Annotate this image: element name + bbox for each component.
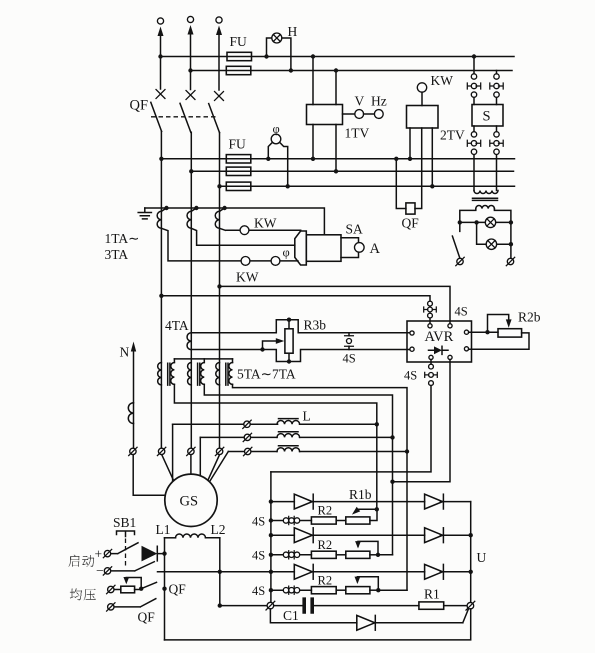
Hz label	[371, 94, 387, 109]
diode row1 right	[425, 494, 444, 509]
R1b rheostat row2	[336, 551, 378, 558]
KW meter 2	[241, 257, 250, 266]
N line reactor	[128, 403, 133, 424]
bus c	[217, 184, 514, 188]
minus label	[96, 563, 104, 578]
wire 4TA upper to AVR	[191, 320, 410, 333]
wire 7TA secondary to row3 vertical	[233, 384, 408, 451]
terminal above GS phase 3	[215, 447, 223, 455]
plus label	[95, 547, 103, 562]
svg-text:R2b: R2b	[518, 310, 541, 325]
KW meter 1	[240, 226, 249, 235]
R2b wiring	[469, 330, 530, 349]
5TA~7TA label	[237, 367, 296, 382]
svg-text:4S: 4S	[252, 584, 265, 598]
R2b wiper arrow	[488, 315, 512, 333]
R1b rheostat row3	[336, 587, 378, 594]
phi label top	[273, 122, 280, 136]
R3b rheostat	[285, 318, 293, 364]
wire CT1 to KW meter 2 and phi	[161, 228, 298, 261]
svg-text:R2: R2	[318, 504, 333, 518]
L1 label	[156, 522, 171, 537]
4S label above AVR	[455, 305, 468, 319]
tap wire phase 1 to 4S contact	[159, 294, 430, 302]
svg-text:R2: R2	[318, 574, 333, 588]
svg-text:U: U	[477, 550, 487, 565]
QF label aux upper	[169, 582, 187, 597]
wire AVR via 4S to rectifier left rail	[271, 386, 431, 472]
AVR terminal bottom left	[429, 355, 433, 359]
V label	[355, 94, 365, 109]
GS lead from L3 line	[210, 452, 229, 482]
svg-text:A: A	[370, 241, 381, 257]
svg-text:−: −	[96, 563, 104, 578]
start terminal minus	[103, 567, 111, 575]
QF trip coil wiring	[394, 128, 422, 209]
4S label row1	[252, 515, 265, 529]
fuse FU on bus2	[226, 66, 251, 74]
fuse FU on bus c	[226, 182, 251, 190]
terminal on L1 line	[243, 420, 251, 428]
4S label mid	[343, 352, 356, 366]
svg-text:4S: 4S	[404, 369, 417, 383]
tap wire phase 3 to AVR input	[217, 284, 450, 323]
rectifier left rail	[269, 472, 273, 603]
GS lead from L2 line	[199, 437, 201, 476]
wire phase 1 vertical	[160, 131, 162, 448]
S label	[483, 109, 491, 125]
wire CT2 to SA	[191, 228, 294, 245]
sync transformer top winding	[474, 191, 498, 194]
AVR terminal top right	[448, 324, 452, 328]
diode row 1 line	[271, 501, 471, 503]
SB1 pushbutton head	[117, 531, 135, 537]
fuse FU on bus b	[226, 167, 251, 175]
diode row 2 line	[271, 533, 473, 537]
terminal bottom right	[466, 601, 475, 610]
terminal on L3 line	[244, 447, 252, 455]
vertical row3 feeder lower part	[406, 452, 408, 591]
equalize rheostat wiper	[123, 577, 143, 591]
svg-text:H: H	[288, 24, 298, 39]
1TV label	[345, 126, 370, 141]
lamp circuit wiring	[458, 209, 514, 259]
QF blade phase 3	[209, 104, 220, 133]
svg-text:4S: 4S	[252, 549, 265, 563]
R1b wiper row2	[355, 541, 392, 557]
GS label	[180, 494, 199, 510]
diode row3 left	[294, 564, 313, 579]
1TV box	[307, 105, 343, 125]
svg-text:L: L	[303, 409, 311, 424]
4S label row2	[252, 549, 265, 563]
C1 capacitor	[274, 597, 419, 613]
QF label aux lower	[138, 610, 156, 625]
svg-text:R1b: R1b	[349, 487, 372, 502]
sync transformer core	[473, 198, 498, 200]
svg-text:SA: SA	[346, 222, 364, 237]
2TV box	[407, 106, 439, 129]
svg-text:KW: KW	[236, 270, 259, 285]
field winding coil	[165, 534, 220, 538]
svg-text:Hz: Hz	[371, 94, 387, 109]
diode row2 right	[425, 528, 444, 543]
lamp terminal left	[456, 257, 464, 265]
Hz meter	[364, 110, 384, 119]
N terminal	[129, 447, 137, 455]
4S plug contact row3	[273, 586, 311, 594]
wire L2 to C1	[220, 605, 267, 607]
A meter loop	[341, 238, 359, 258]
svg-text:φ: φ	[273, 122, 280, 136]
reactor L line 2	[200, 432, 394, 440]
svg-text:1TA∼: 1TA∼	[105, 231, 140, 246]
GS lead phase 3	[208, 455, 220, 481]
wire N to GS	[133, 455, 165, 496]
CT 2TA on phase 2	[187, 206, 199, 229]
bus b	[189, 169, 513, 173]
AVR label	[425, 329, 454, 345]
R2b label	[518, 310, 541, 325]
H label	[288, 24, 298, 39]
reactor L line 1	[173, 419, 379, 427]
QF linkage dashed	[151, 116, 216, 118]
terminal bottom left	[266, 601, 275, 610]
AVR terminal top left	[428, 324, 432, 328]
lamp switch blade	[452, 236, 460, 258]
4S contact above AVR	[424, 301, 437, 323]
R1b rheostat row1	[336, 509, 377, 524]
CT secondary common rail	[174, 358, 232, 360]
CT secondary common bus	[145, 208, 325, 235]
reactor L line 3	[228, 446, 409, 454]
S box	[472, 105, 503, 127]
svg-text:4TA: 4TA	[165, 318, 189, 333]
terminal circle phase 3	[216, 17, 222, 23]
svg-text:φ: φ	[283, 246, 290, 260]
CT 1TA on phase 1	[157, 206, 169, 229]
svg-text:AVR: AVR	[425, 329, 454, 345]
SB1 contact blade lower	[111, 562, 154, 571]
transformer 5TA	[158, 359, 175, 385]
svg-text:R1: R1	[424, 587, 440, 602]
wire AVR bottom right down	[390, 360, 450, 484]
R2 resistor row2	[311, 551, 336, 558]
link X phase 3	[215, 92, 224, 101]
A label	[370, 241, 381, 257]
R3b wiper arrow	[263, 338, 285, 349]
bus 2 top	[188, 68, 512, 72]
start diode	[142, 546, 167, 562]
lamp H	[272, 33, 282, 43]
fuse FU on bus1	[227, 52, 252, 60]
R2b resistor	[498, 329, 522, 337]
svg-text:FU: FU	[230, 34, 248, 49]
freewheel diode wire	[270, 609, 468, 623]
svg-text:3TA: 3TA	[105, 247, 129, 262]
phi label lower	[283, 246, 290, 260]
2TV label	[440, 128, 465, 143]
svg-text:R2: R2	[318, 538, 333, 552]
4S contact below AVR	[425, 360, 438, 386]
KW meter above 2TV	[417, 83, 426, 106]
4S plug contact row1	[273, 516, 311, 524]
link X phase 1	[156, 90, 165, 99]
R1b wiper row3	[355, 577, 408, 593]
QF blade phase 2	[180, 103, 191, 132]
R2 resistor row1	[311, 517, 336, 524]
equalize label (Chinese)	[70, 588, 96, 600]
GS lead from L1 line	[172, 424, 174, 481]
R2 resistor row3	[311, 587, 336, 594]
4TA label	[165, 318, 189, 333]
lamp terminal right	[506, 257, 514, 265]
R2 label row2	[318, 538, 333, 552]
svg-text:+: +	[95, 547, 103, 562]
link X phase 2	[186, 91, 195, 100]
transformer 6TA	[188, 359, 205, 385]
CT 4TA on phase 2	[187, 333, 191, 350]
AVR terminal right upper	[464, 330, 468, 334]
1TV bottom leads	[311, 125, 338, 174]
R2 label row3	[318, 574, 333, 588]
svg-text:2TV: 2TV	[440, 128, 465, 143]
L2 label	[211, 522, 226, 537]
L1 rail	[164, 538, 166, 640]
QF blade phase 1	[151, 102, 162, 131]
S contact lower left	[467, 126, 480, 191]
arrow up phase 1	[158, 27, 164, 90]
svg-text:4S: 4S	[343, 352, 356, 366]
vertical row2 feeder	[392, 437, 394, 554]
svg-text:L1: L1	[156, 522, 171, 537]
svg-text:C1: C1	[283, 608, 299, 623]
GS generator circle	[165, 474, 217, 526]
SB1 linkage dashed	[125, 539, 127, 568]
SA label	[346, 222, 364, 237]
R1b wiper row1	[352, 507, 379, 515]
S contact upper right	[490, 71, 503, 105]
GS lead phase 2	[190, 455, 192, 475]
rectifier right rail	[470, 502, 472, 603]
AVR terminal right lower	[464, 347, 468, 351]
wire 5TA secondary to row1 vertical	[174, 384, 376, 424]
4S plug contact row2	[273, 551, 311, 559]
fuse FU on bus a	[226, 155, 251, 163]
V meter	[343, 110, 364, 119]
terminal above GS phase 2	[187, 447, 195, 455]
SA selector switch box	[295, 231, 341, 265]
arrow up phase 3	[216, 26, 222, 91]
N arrow	[131, 342, 136, 449]
svg-text:QF: QF	[138, 610, 156, 625]
phi meter lower	[271, 257, 280, 266]
svg-text:QF: QF	[130, 98, 149, 114]
1TA~3TA label	[105, 231, 140, 262]
4S label below AVR	[404, 369, 417, 383]
svg-text:5TA∼7TA: 5TA∼7TA	[237, 367, 296, 382]
L2 rail	[218, 538, 222, 608]
R1 label	[424, 587, 440, 602]
sync lamp 1	[485, 217, 495, 227]
diode row3 right	[425, 564, 444, 579]
svg-text:QF: QF	[402, 216, 420, 231]
L label	[303, 409, 311, 424]
KW label 1	[254, 216, 277, 231]
equalize rheostat	[114, 586, 141, 593]
1TV top leads	[311, 54, 338, 104]
phi meter leads	[266, 142, 290, 188]
sync lamp 2	[486, 239, 496, 249]
N label	[120, 345, 130, 360]
wire CT3 to KW meter 1	[220, 228, 301, 230]
start terminal plus	[103, 549, 111, 557]
svg-text:V: V	[355, 94, 365, 109]
FU label top	[230, 34, 248, 49]
svg-text:KW: KW	[254, 216, 277, 231]
AVR terminal bottom right	[448, 355, 452, 359]
svg-text:SB1: SB1	[113, 515, 136, 530]
AVR internal diode	[429, 346, 449, 354]
svg-text:KW: KW	[431, 73, 454, 88]
R3b label	[304, 318, 327, 333]
bottom bus	[165, 609, 471, 640]
svg-text:1TV: 1TV	[345, 126, 370, 141]
svg-text:N: N	[120, 345, 130, 360]
R1b label	[349, 487, 372, 502]
diode row2 left	[294, 528, 313, 543]
svg-text:4S: 4S	[252, 515, 265, 529]
wire 4TA lower to AVR	[191, 347, 410, 361]
start label (Chinese)	[68, 555, 94, 567]
U label	[477, 550, 487, 565]
svg-text:4S: 4S	[455, 305, 468, 319]
bus 1 top	[158, 54, 514, 58]
diode row1 left	[294, 494, 313, 509]
terminal circle phase 1	[157, 18, 163, 24]
QF aux blade lower	[114, 599, 156, 607]
A meter	[355, 243, 365, 253]
CT 3TA on phase 3	[215, 206, 227, 229]
lamp H circuit wires	[264, 38, 293, 73]
svg-text:L2: L2	[211, 522, 226, 537]
QF label (main breaker)	[130, 98, 149, 114]
wire phase 3 vertical	[219, 133, 221, 449]
svg-text:R3b: R3b	[304, 318, 327, 333]
terminal above GS phase 1	[157, 447, 165, 455]
equalize terminal upper	[107, 585, 115, 593]
QF label trip coil	[402, 216, 420, 231]
KW label top	[431, 73, 454, 88]
svg-text:QF: QF	[169, 582, 187, 597]
phi meter top	[271, 134, 281, 144]
transformer 7TA	[216, 359, 233, 385]
sync transformer bottom winding	[476, 206, 495, 209]
freewheel diode	[357, 615, 376, 630]
QF trip coil box	[406, 203, 415, 214]
AVR terminal left lower	[410, 347, 414, 351]
KW label 2	[236, 270, 259, 285]
SB1 label	[113, 515, 136, 530]
QF aux blade upper	[141, 582, 167, 591]
diode row 3 line	[158, 570, 473, 574]
AVR box	[407, 321, 472, 362]
arrow up phase 2	[188, 25, 194, 90]
equalize terminal lower	[107, 603, 115, 611]
wire 6TA secondary to row2 vertical	[204, 384, 392, 437]
svg-text:S: S	[483, 109, 491, 125]
4S label row3	[252, 584, 265, 598]
2TV bottom leads	[408, 128, 435, 189]
R2 label row1	[318, 504, 333, 518]
vertical row1 feeder	[376, 424, 378, 509]
FU label lower	[229, 137, 247, 152]
S contact lower right	[490, 126, 503, 191]
svg-text:FU: FU	[229, 137, 247, 152]
C1 label	[283, 608, 299, 623]
svg-text:GS: GS	[180, 494, 199, 510]
AVR terminal left upper	[410, 331, 414, 335]
GS lead phase 1	[162, 455, 174, 481]
4S contact mid (between AVR wires)	[345, 333, 354, 350]
S contact upper left	[467, 54, 480, 104]
R1 resistor	[419, 602, 467, 609]
bus a	[159, 157, 514, 161]
ground	[138, 208, 151, 219]
wire phase 2 vertical	[190, 132, 192, 448]
SB1 contact blade upper	[111, 543, 138, 554]
terminal on L2 line	[243, 433, 251, 441]
terminal circle phase 2	[187, 16, 193, 22]
